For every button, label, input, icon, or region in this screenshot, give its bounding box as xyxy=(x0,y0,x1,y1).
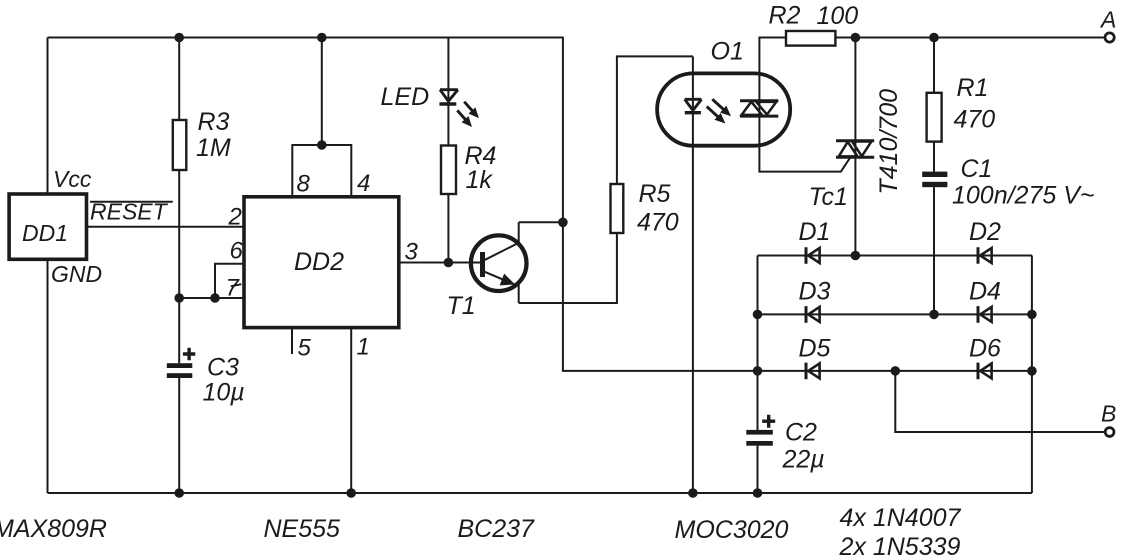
svg-text:GND: GND xyxy=(51,261,102,287)
svg-text:DD1: DD1 xyxy=(22,220,68,246)
svg-text:LED: LED xyxy=(381,83,430,111)
svg-text:Vcc: Vcc xyxy=(53,166,92,192)
svg-text:BC237: BC237 xyxy=(458,515,536,543)
svg-text:22µ: 22µ xyxy=(782,446,825,474)
svg-text:4: 4 xyxy=(357,170,370,197)
svg-text:100: 100 xyxy=(817,2,859,30)
svg-text:NE555: NE555 xyxy=(264,515,341,543)
svg-text:O1: O1 xyxy=(711,37,744,65)
svg-text:2: 2 xyxy=(228,204,242,231)
svg-text:D6: D6 xyxy=(969,335,1001,363)
svg-text:6: 6 xyxy=(230,238,244,265)
svg-text:470: 470 xyxy=(954,105,996,133)
svg-text:MOC3020: MOC3020 xyxy=(675,516,789,544)
svg-text:7: 7 xyxy=(226,275,241,302)
svg-text:B: B xyxy=(1101,401,1116,427)
svg-text:D3: D3 xyxy=(799,278,831,306)
svg-text:D4: D4 xyxy=(969,278,1001,306)
svg-text:2x 1N5339: 2x 1N5339 xyxy=(839,533,961,560)
svg-text:T410/700: T410/700 xyxy=(875,89,903,195)
svg-text:Tc1: Tc1 xyxy=(809,183,848,211)
svg-text:5: 5 xyxy=(298,334,312,361)
svg-text:D5: D5 xyxy=(799,335,831,363)
svg-text:MAX809R: MAX809R xyxy=(0,515,107,543)
svg-text:1k: 1k xyxy=(466,166,494,194)
svg-text:RESET: RESET xyxy=(90,199,169,225)
svg-text:R1: R1 xyxy=(957,74,989,102)
svg-text:100n/275 V~: 100n/275 V~ xyxy=(952,182,1095,210)
svg-text:C1: C1 xyxy=(961,155,993,183)
svg-text:A: A xyxy=(1099,7,1116,33)
svg-text:3: 3 xyxy=(405,239,419,266)
svg-text:1: 1 xyxy=(357,334,370,361)
svg-text:D1: D1 xyxy=(799,218,831,246)
svg-text:R3: R3 xyxy=(198,108,230,136)
svg-text:10µ: 10µ xyxy=(203,379,245,407)
svg-text:R5: R5 xyxy=(639,180,671,208)
svg-text:8: 8 xyxy=(297,171,311,198)
svg-text:C3: C3 xyxy=(207,354,239,382)
svg-text:D2: D2 xyxy=(969,218,1001,246)
svg-text:C2: C2 xyxy=(785,419,817,447)
svg-text:DD2: DD2 xyxy=(294,248,344,276)
svg-text:T1: T1 xyxy=(447,292,476,320)
svg-text:R2: R2 xyxy=(769,2,801,30)
svg-text:470: 470 xyxy=(637,209,679,237)
svg-text:4x 1N4007: 4x 1N4007 xyxy=(840,504,962,532)
svg-text:1M: 1M xyxy=(196,134,231,162)
